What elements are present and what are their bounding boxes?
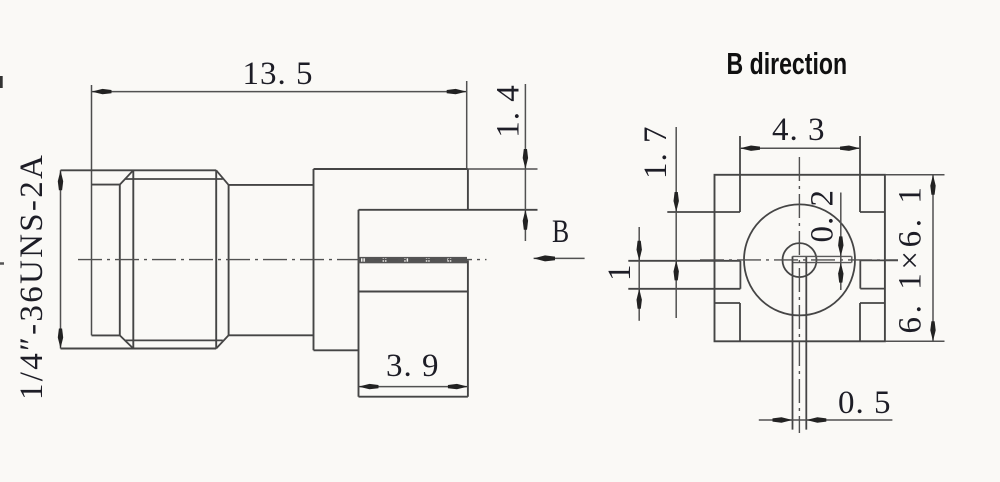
front shoulder bottom — [92, 334, 120, 336]
dimension 1.7 upper arrowhead — [674, 192, 679, 212]
dimension 3.9 right arrowhead — [448, 384, 468, 389]
corner notch bottom-left horizontal — [715, 302, 741, 304]
hex chamfer vertical right — [215, 170, 217, 348]
leg top edge — [359, 291, 468, 293]
pin strip left vertical (B view) — [792, 256, 794, 429]
dimension 1 lower arrowhead — [637, 289, 642, 309]
front right edge — [119, 185, 121, 336]
corner notch bottom-left vertical — [739, 303, 741, 341]
hex corner diagonal bottom-left — [120, 335, 134, 348]
hex corner diagonal top-right — [216, 170, 228, 185]
extension line right for 13.5 — [466, 81, 468, 169]
dimension 0.2 upper arrowhead — [838, 236, 843, 256]
block left edge — [313, 169, 315, 350]
hex chamfer vertical left — [132, 170, 134, 348]
svg-text:3. 9: 3. 9 — [386, 348, 440, 384]
extension line left (front face + ext) — [91, 85, 93, 335]
corner notch top-right horizontal — [860, 211, 885, 213]
hex bottom edge + extension — [61, 348, 217, 350]
square flange outline — [715, 175, 885, 341]
dimension 4.3 line — [740, 147, 860, 149]
svg-text:6. 1×6. 1: 6. 1×6. 1 — [893, 183, 929, 333]
dimension 1 upper arrowhead — [637, 241, 642, 261]
dimension 6.1 top arrowhead — [930, 175, 935, 195]
dimension 0.5 right arrowhead — [806, 417, 826, 422]
horizontal centerline right figure — [700, 259, 898, 261]
dimension 1.7 lower arrowhead — [674, 260, 679, 280]
extension line block top right — [467, 168, 538, 170]
vertical centerline right figure — [798, 157, 800, 433]
dimension 6.1 bottom arrowhead — [930, 321, 935, 341]
dimension 6.1x6.1 line — [932, 175, 934, 341]
pin strip band (side view) — [359, 257, 468, 263]
dimension 1.4 upper arrowhead — [523, 149, 528, 169]
dimension 0.5 line — [759, 419, 893, 421]
extension line square top right — [885, 174, 945, 176]
hex flat line upper — [125, 178, 223, 180]
barrel top edge — [229, 184, 314, 186]
dimension 0.2 line — [840, 193, 842, 291]
dimension 1.4 line — [524, 84, 526, 241]
dimension 4.3 right arrowhead — [840, 146, 860, 151]
mid notch right vertical — [859, 260, 861, 288]
svg-text:1. 4: 1. 4 — [491, 84, 527, 138]
pin strip right vertical (B view) — [805, 257, 807, 430]
corner notch bottom-right vertical — [859, 303, 861, 341]
thread dim bottom arrowhead — [58, 329, 63, 349]
hex flat line lower — [125, 339, 223, 341]
corner notch top-left horizontal (and 1.7 ext) — [667, 211, 740, 213]
view direction arrow B — [534, 257, 585, 259]
mid notch right bottom line — [860, 288, 885, 290]
dimension 13.5 right arrowhead — [447, 89, 467, 94]
corner notch bottom-right horizontal — [860, 302, 885, 304]
thread dim top arrowhead — [58, 170, 63, 190]
leg bottom edge — [359, 396, 468, 398]
dimension 1 line — [638, 227, 640, 321]
dimension 4.3 left arrowhead — [740, 146, 760, 151]
svg-text:0. 2: 0. 2 — [805, 189, 841, 243]
edge tick centerline stub — [0, 262, 4, 265]
centerline left figure — [78, 259, 487, 261]
dimension 3.9 left arrowhead — [359, 384, 379, 389]
svg-text:1/4″-36UNS-2A: 1/4″-36UNS-2A — [14, 153, 50, 400]
dimension 3.9 line — [359, 386, 468, 388]
corner notch top-left vertical (and 4.3 ext) — [739, 136, 741, 212]
dimension 0.2 lower arrowhead — [838, 263, 843, 283]
mid notch left top line + 1 ext — [628, 260, 740, 262]
thread dimension line vertical — [60, 170, 62, 348]
svg-text:B direction: B direction — [727, 46, 848, 81]
dimension 1.7 line — [675, 127, 677, 318]
block top edge — [314, 168, 468, 170]
svg-text:1. 7: 1. 7 — [638, 126, 674, 180]
dimension 1.4 lower arrowhead — [523, 210, 528, 230]
svg-text:0. 5: 0. 5 — [838, 385, 892, 421]
pin strip white dashes — [361, 258, 451, 261]
extension line square bottom right — [885, 340, 945, 342]
inner circle — [783, 243, 817, 277]
svg-text:4. 3: 4. 3 — [772, 112, 826, 148]
block bottom edge — [314, 349, 359, 351]
hex top edge + extension — [61, 169, 217, 171]
mid notch right top line — [860, 259, 898, 261]
dimension 0.5 left arrowhead — [773, 417, 793, 422]
svg-text:B: B — [552, 214, 569, 250]
pin bar right end cap (B view) — [851, 256, 853, 262]
mid notch left bottom line + 1 ext — [628, 288, 740, 290]
outer circle — [744, 204, 855, 315]
svg-text:1: 1 — [602, 265, 638, 282]
slot top line + extension — [359, 209, 538, 211]
right edge below strip through leg — [467, 260, 469, 397]
upper jaw right edge — [467, 169, 469, 210]
edge tick upper — [0, 76, 3, 88]
hex corner diagonal top-left — [120, 170, 134, 184]
corner notch top-right vertical (and 4.3 ext) — [859, 136, 861, 212]
pin bar bottom (B view) — [793, 262, 852, 264]
dimension 13.5 left arrowhead — [92, 89, 112, 94]
hex-barrel boundary vertical — [228, 185, 230, 335]
mid notch left vertical — [739, 261, 741, 289]
barrel bottom edge — [229, 334, 314, 336]
front shoulder top — [92, 184, 120, 186]
dimension 13.5 line — [92, 91, 467, 93]
pin bar top (B view) — [793, 255, 852, 257]
svg-text:13. 5: 13. 5 — [243, 56, 314, 92]
slot back wall — [358, 210, 360, 397]
hex corner diagonal bottom-right — [216, 335, 228, 348]
